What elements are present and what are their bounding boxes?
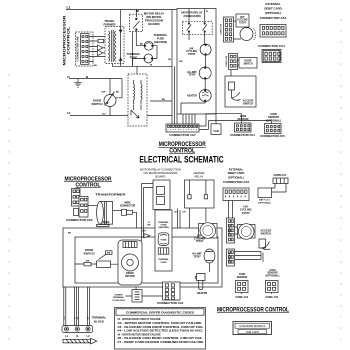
svg-text:BK: BK — [140, 44, 144, 46]
svg-text:BLOCK: BLOCK — [94, 319, 104, 323]
svg-text:EXTERNAL: EXTERNAL — [229, 167, 244, 171]
svg-text:HEATER: HEATER — [197, 291, 208, 295]
svg-text:N: N — [76, 334, 78, 338]
svg-text:(OPTIONAL): (OPTIONAL) — [265, 11, 281, 15]
svg-text:BU: BU — [174, 212, 178, 214]
svg-text:COMMERCIAL DRYER DIAGNOSTIC CO: COMMERCIAL DRYER DIAGNOSTIC CODES — [126, 311, 194, 315]
svg-text:WR: WR — [102, 92, 106, 94]
svg-text:SENSOR: SENSOR — [238, 117, 249, 121]
svg-text:FORMER: FORMER — [103, 22, 115, 26]
svg-text:DRIVE: DRIVE — [126, 271, 134, 275]
svg-text:CAM: CAM — [213, 130, 218, 133]
svg-text:(OPTIONAL): (OPTIONAL) — [266, 118, 281, 122]
svg-text:TSTAT: TSTAT — [188, 53, 196, 56]
svg-text:CONNECTOR #A6: CONNECTOR #A6 — [66, 218, 93, 222]
svg-text:DOOR: DOOR — [245, 61, 252, 63]
svg-text:ELECTRICAL SCHEMATIC: ELECTRICAL SCHEMATIC — [139, 154, 223, 164]
svg-text:#7 - DEBIT CARD READER COMMUNI: #7 - DEBIT CARD READER COMMUNICATION FAI… — [118, 341, 204, 344]
svg-text:OR: OR — [168, 59, 172, 61]
svg-text:TSTAT: TSTAT — [193, 255, 201, 258]
svg-text:SWITCH: SWITCH — [91, 102, 102, 106]
svg-text:THERMAL: THERMAL — [158, 258, 169, 261]
svg-text:(HEATER): (HEATER) — [158, 226, 169, 229]
svg-text:CONNECTOR #A3: CONNECTOR #A3 — [223, 181, 250, 184]
svg-text:BK: BK — [68, 233, 72, 235]
svg-text:#5 - DRYER MOTOR SENSE FAILURE: #5 - DRYER MOTOR SENSE FAILURE — [118, 333, 161, 336]
svg-text:CG155-DG4: CG155-DG4 — [112, 299, 125, 302]
svg-text:TRANSFORMER: TRANSFORMER — [95, 193, 126, 197]
svg-text:BASE: BASE — [103, 221, 110, 224]
svg-text:BU: BU — [102, 114, 106, 116]
svg-text:CONTROL: CONTROL — [66, 26, 70, 55]
svg-text:TSTAT: TSTAT — [196, 240, 204, 243]
svg-text:CONNECTOR #A4: CONNECTOR #A4 — [230, 133, 255, 137]
svg-text:DEBIT CARD: DEBIT CARD — [264, 7, 281, 11]
svg-text:CONN #J2: CONN #J2 — [221, 23, 223, 34]
svg-text:BU: BU — [94, 65, 98, 67]
svg-text:CONNECTOR #A7: CONNECTOR #A7 — [169, 133, 196, 137]
svg-text:BK: BK — [147, 225, 151, 227]
svg-text:W: W — [75, 317, 77, 319]
svg-text:CONN. #A5: CONN. #A5 — [265, 296, 278, 299]
svg-text:FUSE: FUSE — [130, 56, 138, 60]
svg-text:BK: BK — [136, 10, 140, 13]
svg-text:BOARD: BOARD — [156, 174, 166, 178]
svg-text:CONNECTOR #A3: CONNECTOR #A3 — [260, 16, 287, 20]
svg-text:CONNECTOR #A6: CONNECTOR #A6 — [75, 36, 79, 61]
svg-text:(ON BOARD): (ON BOARD) — [183, 14, 200, 18]
svg-text:250°: 250° — [240, 17, 245, 19]
svg-text:HEATER: HEATER — [187, 95, 197, 98]
svg-text:(HEATER): (HEATER) — [154, 40, 167, 44]
svg-text:BOARD): BOARD) — [148, 22, 159, 26]
svg-text:CONNECTOR CC1: CONNECTOR CC1 — [258, 44, 285, 48]
svg-text:N: N — [67, 75, 69, 79]
svg-text:SCREW: SCREW — [114, 294, 123, 296]
svg-text:CONN #J4: CONN #J4 — [225, 55, 228, 66]
svg-text:FUSE: FUSE — [161, 240, 167, 242]
svg-text:#2 - DRYER MOTOR CONTROL CIRCU: #2 - DRYER MOTOR CONTROL CIRCUIT FAILURE — [118, 322, 203, 325]
svg-text:CONN #J2: CONN #J2 — [229, 225, 231, 236]
svg-text:TSTAT: TSTAT — [239, 21, 247, 24]
svg-text:CONNECTOR #A5: CONNECTOR #A5 — [260, 134, 285, 138]
svg-text:BK: BK — [162, 99, 166, 101]
svg-text:#3 - BLOCKED COIN DROP CONTROL: #3 - BLOCKED COIN DROP CONTROL CIRCUIT F… — [118, 326, 205, 329]
svg-text:TERMINAL: TERMINAL — [113, 296, 125, 299]
svg-text:TSTAT: TSTAT — [188, 74, 196, 77]
svg-text:FUSE: FUSE — [161, 262, 167, 264]
svg-text:MOTOR: MOTOR — [125, 274, 135, 278]
svg-text:DEBIT CARD: DEBIT CARD — [228, 171, 245, 175]
svg-text:CYCLING: CYCLING — [237, 20, 248, 22]
svg-text:WR: WR — [142, 231, 146, 233]
svg-text:(OPTIONAL): (OPTIONAL) — [258, 201, 271, 204]
svg-text:CONN. #A4: CONN. #A4 — [235, 296, 248, 299]
svg-text:WR: WR — [107, 253, 111, 255]
svg-text:L1: L1 — [67, 6, 71, 10]
svg-text:CANADIAN MODELS: CANADIAN MODELS — [239, 324, 265, 328]
svg-text:#1 - DRYER DOOR CIRCUIT FAILUR: #1 - DRYER DOOR CIRCUIT FAILURE — [118, 318, 161, 321]
svg-text:CONNECTOR: CONNECTOR — [120, 205, 136, 208]
svg-text:WR: WR — [86, 261, 90, 263]
svg-text:ADE 14PN: ADE 14PN — [246, 330, 259, 334]
svg-text:CONNECTOR #A2: CONNECTOR #A2 — [157, 301, 184, 305]
svg-text:BK: BK — [179, 61, 183, 63]
svg-text:L2: L2 — [67, 111, 71, 115]
svg-text:EXTERNAL: EXTERNAL — [265, 2, 280, 6]
svg-text:MICROPROCESSOR CONTROL: MICROPROCESSOR CONTROL — [217, 306, 289, 313]
svg-text:SWITCH: SWITCH — [243, 64, 252, 66]
svg-text:SWITCH: SWITCH — [261, 232, 271, 236]
svg-text:RELAY: RELAY — [195, 175, 204, 179]
svg-text:(OPTIONAL): (OPTIONAL) — [228, 175, 244, 179]
svg-text:#4 - LOW VOLTAGE DETECTED (LES: #4 - LOW VOLTAGE DETECTED (LESS THAN 90 … — [118, 330, 203, 333]
svg-text:BU: BU — [116, 92, 120, 94]
svg-text:SWITCH: SWITCH — [243, 102, 253, 106]
svg-text:CONN CC1: CONN CC1 — [273, 174, 287, 177]
svg-text:SENSOR: SENSOR — [237, 276, 248, 279]
svg-text:#6 - BLOCKED COIN DROP CONTROL: #6 - BLOCKED COIN DROP CONTROL CIRCUIT F… — [118, 337, 204, 340]
svg-text:BATT CC1: BATT CC1 — [259, 199, 270, 202]
svg-text:THERMAL: THERMAL — [158, 221, 169, 224]
svg-text:TSTAT: TSTAT — [242, 211, 250, 215]
svg-text:CONN #J3: CONN #J3 — [229, 252, 231, 263]
svg-text:SWITCH: SWITCH — [83, 252, 94, 256]
svg-text:OR: OR — [182, 212, 186, 214]
svg-text:(OPTIONAL): (OPTIONAL) — [266, 274, 280, 277]
